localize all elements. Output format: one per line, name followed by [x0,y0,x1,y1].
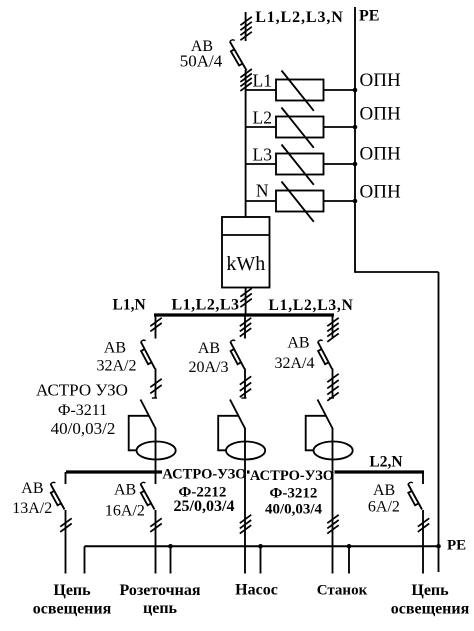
svg-text:освещения: освещения [391,601,470,618]
svg-text:АВ: АВ [21,480,43,497]
junction PE drop 4 [347,544,352,549]
svg-text:ОПН: ОПН [360,70,401,91]
wire uzo2 to lower bus [244,460,246,473]
svg-text:ОПН: ОПН [360,104,401,125]
wire kWh to bus [245,288,247,316]
junction PE drop 2 [168,544,173,549]
svg-text:16А/2: 16А/2 [105,503,145,520]
svg-text:АСТРО-УЗО: АСТРО-УЗО [250,468,334,484]
wire outgoing Stanok [332,472,334,574]
wire branch 3 from bus [332,315,334,339]
svg-text:АВ: АВ [114,482,136,499]
svg-text:6А/2: 6А/2 [368,499,400,516]
svg-text:АСТРО-УЗО: АСТРО-УЗО [162,467,246,483]
junction N-PE [353,199,358,204]
svg-text:L3: L3 [253,145,273,165]
svg-text:АСТРО УЗО: АСТРО УЗО [36,381,128,400]
svg-text:40/0,03/4: 40/0,03/4 [265,502,323,518]
label ASTRO-UZO F-3212 group [250,468,335,483]
svg-text:АВ: АВ [373,482,395,499]
svg-text:ОПН: ОПН [360,182,401,203]
hatch outgoing АВ 13А/2 [60,518,71,532]
svg-text:13А/2: 13А/2 [12,500,52,517]
hatch outgoing АВ 6А/2 [418,518,429,532]
bus lower distribution [66,470,424,473]
hatch 4 conductors top feeder [240,17,251,40]
wire L3 row right [324,163,356,165]
svg-text:Ф-3211: Ф-3211 [58,402,107,419]
wire uzo1 to lower bus [155,460,157,473]
circuit breaker АВ 6А/2 [408,482,422,509]
wire stub below lower bus x=65.5 [65,472,67,484]
wire L2 row left [246,126,276,128]
hatch outgoing Nasos [240,515,251,534]
hatch branch 1 upper [150,318,161,332]
surge arrester diagonal L3 [282,145,314,185]
hatch branch 2 lower [240,376,251,397]
svg-text:Насос: Насос [235,582,278,599]
circuit breaker АВ 32А/2 [141,340,155,369]
wire branch 2 below breaker [244,369,246,399]
wire PE drop 1 [84,546,86,573]
wire PE jog horizontal [355,271,439,273]
wire stub below lower bus x=423.0 [422,472,424,484]
wire outgoing Nasos [244,472,246,574]
surge arrester diagonal N [282,182,314,222]
svg-text:Ф-3212: Ф-3212 [270,486,318,502]
hatch branch 3 upper [327,318,338,342]
svg-text:50А/4: 50А/4 [180,52,223,71]
kWh meter box [222,217,270,288]
surge arrester box L2 [276,117,324,138]
wire PE drop 3 [260,546,262,573]
svg-text:PE: PE [447,538,466,554]
hatch outgoing АВ 16А/2 [150,518,161,532]
svg-text:PE: PE [359,8,379,25]
hatch 4 conductors below main breaker [240,69,251,91]
svg-text:40/0,03/2: 40/0,03/2 [51,419,116,438]
label ASTRO-UZO F-2212 group [162,467,247,482]
wire PE drop 2 [170,546,172,573]
svg-text:ОПН: ОПН [360,144,401,165]
surge arrester box N [276,191,324,212]
surge arrester box L1 [276,80,324,101]
svg-text:L1,L2,L3: L1,L2,L3 [172,297,240,314]
wire N row left [246,200,276,202]
hatch conductors kWh drop [240,288,251,307]
svg-text:kWh: kWh [226,253,265,275]
circuit breaker QF main AB 50A/4 [230,40,247,71]
svg-text:освещения: освещения [33,601,112,618]
surge arrester diagonal L2 [282,108,314,148]
wire N row right [324,200,356,202]
svg-text:32А/4: 32А/4 [275,355,315,372]
svg-text:L1,L2,L3,N: L1,L2,L3,N [269,297,354,314]
wire PE drop 4 [348,546,350,573]
svg-text:32А/2: 32А/2 [97,358,137,375]
hatch branch 3 lower [327,374,338,401]
hatch outgoing Stanok [327,515,338,534]
RCD UZO branch 2 [218,400,265,460]
circuit breaker АВ 20А/3 [230,340,244,369]
wire uzo3 to lower bus [332,460,334,473]
hatch branch 1 lower [150,379,161,394]
wire L1 row right [324,89,356,91]
svg-text:L2: L2 [253,108,272,128]
svg-text:N: N [256,181,269,201]
svg-text:АВ: АВ [287,335,309,352]
svg-text:цепь: цепь [143,600,178,617]
svg-text:L1,L2,L3,N: L1,L2,L3,N [255,9,344,26]
wire outgoing below breaker АВ 16А/2 [155,510,157,574]
wire stub below lower bus x=155.5 [155,472,157,484]
wire branch 1 from bus [155,315,157,339]
circuit breaker АВ 16А/2 [141,482,155,509]
junction L2-PE [353,125,358,130]
surge arrester box L3 [276,154,324,175]
junction L1-PE [353,88,358,93]
wire outgoing below breaker АВ 13А/2 [65,510,67,574]
wire L3 row left [246,163,276,165]
wire branch 1 below breaker [155,369,157,399]
svg-text:L1,N: L1,N [113,297,146,314]
junction PE riser-bus [436,544,441,549]
svg-text:20А/3: 20А/3 [189,359,229,376]
wire top feeder stub [245,12,247,41]
PE riser wire [354,7,356,273]
wire branch 2 from bus [244,315,246,339]
wire L1 row left [246,89,276,91]
junction PE drop 3 [258,544,263,549]
svg-text:25/0,03/4: 25/0,03/4 [174,498,235,515]
wire outgoing below breaker АВ 6А/2 [422,510,424,574]
RCD UZO branch 3 [306,400,353,460]
svg-text:Цепь: Цепь [53,582,91,599]
wire PE right riser [438,272,440,572]
svg-text:L1: L1 [253,71,272,91]
svg-text:Станок: Станок [317,583,368,599]
RCD UZO branch 1 [129,400,176,460]
hatch branch 2 upper [240,318,251,337]
svg-text:L2,N: L2,N [369,454,402,471]
wire branch 3 below breaker [332,369,334,399]
junction L3-PE [353,162,358,167]
wire feeder below main breaker [245,70,247,217]
kWh meter terminal line [222,234,270,236]
svg-text:Розеточная: Розеточная [119,582,200,599]
circuit breaker АВ 13А/2 [51,482,65,509]
surge arrester diagonal L1 [282,71,314,111]
bus main distribution [154,313,334,316]
circuit breaker АВ 32А/4 [318,340,332,369]
wire L2 row right [324,126,356,128]
svg-text:АВ: АВ [198,340,220,357]
bus PE bottom [85,545,439,547]
svg-text:АВ: АВ [104,340,126,357]
svg-text:Цепь: Цепь [411,582,449,599]
